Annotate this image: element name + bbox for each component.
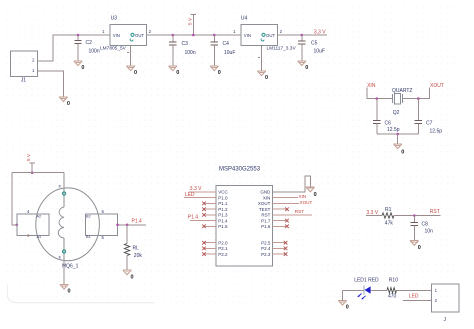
junction XIN-C6 [376, 97, 379, 100]
svg-text:5 V: 5 V [26, 153, 32, 161]
svg-text:470: 470 [388, 293, 397, 299]
resistor R10 [387, 278, 398, 300]
capacitor C2 [74, 35, 99, 61]
pin 2 of U3 [149, 29, 152, 34]
svg-text:XOUT: XOUT [430, 83, 444, 89]
no-connect P1.3 [202, 213, 216, 217]
svg-text:A2: A2 [37, 215, 42, 219]
pin 1 of U3 [102, 29, 105, 34]
svg-text:0: 0 [401, 150, 404, 156]
svg-text:A1: A1 [37, 235, 42, 239]
svg-text:LED: LED [409, 294, 419, 300]
resistor R1 [382, 207, 394, 227]
wire sensor output [118, 224, 147, 226]
svg-text:XOUT: XOUT [300, 200, 313, 205]
svg-text:0: 0 [314, 192, 317, 198]
svg-text:P2.2: P2.2 [218, 252, 228, 257]
net label XIN at quartz [367, 83, 376, 89]
MCU label MSP430G2553 [219, 167, 261, 173]
svg-text:0: 0 [131, 274, 134, 280]
wire RST [273, 214, 312, 216]
wire sensor heater bottom [58, 238, 66, 284]
no-connect P1.1 [202, 202, 216, 206]
svg-text:LED: LED [185, 192, 195, 198]
net label 3.3 V [314, 30, 326, 36]
sensor MQ6_1 body [36, 188, 100, 270]
wire U3 GND pin [127, 45, 131, 66]
svg-text:20k: 20k [134, 253, 143, 259]
wire to RL [126, 225, 128, 244]
no-connect P2.3 [273, 252, 288, 256]
no-connect P1.2 [202, 207, 216, 211]
ground for J1 [59, 97, 70, 107]
junction C2 tap [77, 34, 80, 37]
svg-text:VIN: VIN [113, 33, 120, 38]
net label 3.3 V at R1 [367, 210, 379, 216]
svg-text:MSP430G2553: MSP430G2553 [219, 167, 261, 173]
net label LED at J2 [409, 294, 419, 300]
ground for C3 [169, 66, 180, 76]
svg-text:0: 0 [67, 101, 70, 107]
wire ground to LED [343, 290, 365, 300]
ground for C4 [210, 66, 221, 76]
svg-text:100n: 100n [185, 50, 196, 56]
ground for LED [338, 300, 348, 310]
wire R1 to RST [394, 215, 440, 217]
no-connect P2.5 [273, 241, 288, 245]
wire crystal to XOUT [403, 88, 430, 99]
svg-text:P2.1: P2.1 [218, 246, 228, 251]
net label RST at MCU [295, 209, 305, 215]
svg-text:10n: 10n [425, 229, 434, 235]
svg-text:VIN: VIN [244, 33, 251, 38]
wire 5V rail U3 OUT to U4 VIN [146, 34, 241, 36]
no-connect P2.2 [202, 252, 216, 256]
wire LED to R10 [371, 289, 387, 291]
svg-text:H: H [58, 255, 62, 258]
svg-text:J1: J1 [21, 78, 27, 84]
svg-text:C8: C8 [422, 221, 429, 227]
svg-text:LED1 RED: LED1 RED [354, 278, 379, 284]
no-connect P2.4 [273, 247, 288, 251]
net label RST [430, 209, 440, 215]
junction at sensor pin A [15, 224, 18, 227]
svg-text:P2.3: P2.3 [261, 252, 271, 257]
svg-text:P1.5: P1.5 [218, 224, 228, 229]
wire R10 to J2 pin1 [397, 289, 432, 291]
wire XOUT [273, 202, 299, 204]
net label XOUT [430, 83, 444, 89]
svg-text:GND: GND [260, 190, 271, 195]
svg-text:C7: C7 [426, 121, 433, 127]
ground for sensor [60, 284, 71, 294]
wire GND to ground [273, 176, 311, 192]
svg-text:C2: C2 [86, 40, 93, 46]
power 5V symbol [188, 14, 197, 36]
wire LED net to J2 pin2 [403, 299, 431, 301]
MCU pin names right [258, 190, 271, 257]
svg-text:C5: C5 [311, 41, 318, 47]
net label P1.4 at sensor [132, 218, 143, 224]
MCU MSP430G2553 body [216, 185, 273, 266]
svg-text:0: 0 [81, 65, 84, 71]
svg-text:P2.0: P2.0 [218, 240, 228, 245]
svg-text:P1.0: P1.0 [218, 195, 228, 200]
svg-text:0: 0 [265, 75, 268, 81]
ground for U3 [126, 66, 137, 76]
net label XIN at MCU [299, 194, 307, 199]
capacitor C4 [211, 35, 236, 66]
junction C4 tap [213, 34, 216, 37]
no-connect P1.6 [273, 225, 289, 229]
wire C6 C7 common [377, 133, 419, 135]
LED LED1 RED [354, 278, 379, 300]
ground for C8 [410, 241, 421, 251]
no-connect P2.0 [202, 241, 216, 245]
no-connect P2.1 [202, 247, 216, 251]
ground for C5 [298, 61, 309, 71]
net label XOUT at MCU [300, 200, 313, 205]
svg-text:C4: C4 [223, 41, 230, 47]
svg-text:3.3 V: 3.3 V [314, 30, 326, 36]
svg-text:R10: R10 [389, 278, 398, 284]
svg-text:12.5p: 12.5p [387, 127, 400, 133]
regulator U3 LM7805_5V [100, 15, 146, 51]
net label P1.4 [188, 214, 199, 220]
svg-text:C3: C3 [182, 41, 189, 47]
connector J2 [431, 284, 459, 323]
svg-text:LM1117_3.3V: LM1117_3.3V [267, 45, 297, 51]
capacitor C8 [411, 216, 433, 241]
wire J1 pin2 to VIN rail [38, 35, 111, 61]
svg-text:P1.2: P1.2 [218, 207, 228, 212]
svg-text:0: 0 [346, 305, 349, 311]
junction RL tap [126, 224, 129, 227]
svg-text:0: 0 [134, 70, 137, 76]
power 5V symbol at sensor [26, 153, 35, 174]
svg-text:OUT: OUT [135, 33, 144, 38]
ground for U4 [257, 71, 268, 81]
svg-text:LM7805_5V: LM7805_5V [100, 45, 127, 51]
resistor RL [124, 244, 142, 260]
junction quartz ground [396, 133, 399, 136]
wire 3.3V to R1 [366, 215, 382, 217]
svg-text:P1.7: P1.7 [261, 218, 271, 223]
wire XIN to crystal [367, 88, 392, 99]
ground for MCU [306, 187, 317, 198]
svg-text:10uF: 10uF [224, 50, 235, 56]
junction XOUT-C7 [417, 97, 420, 100]
svg-text:P1.1: P1.1 [218, 201, 228, 206]
wire RL to ground [126, 256, 128, 271]
wire J1 pin1 to ground [38, 71, 64, 97]
wire U4 OUT 3.3V net [277, 34, 327, 36]
svg-text:0: 0 [418, 245, 421, 251]
no-connect P1.5 [202, 225, 216, 229]
capacitor C7 [415, 99, 443, 135]
wire sensor left leg [12, 173, 17, 225]
svg-text:0: 0 [218, 70, 221, 76]
svg-text:P1.4: P1.4 [218, 218, 228, 223]
ground for C2 [74, 61, 85, 71]
wire XIN [273, 197, 298, 199]
no-connect TEST [273, 207, 289, 211]
svg-text:0: 0 [176, 70, 179, 76]
junction C5 tap [301, 34, 304, 37]
svg-text:C6: C6 [385, 121, 392, 127]
ground for RL [123, 270, 134, 280]
svg-text:XIN: XIN [263, 195, 271, 200]
svg-text:P1.4: P1.4 [188, 214, 199, 220]
svg-text:0: 0 [68, 289, 71, 295]
svg-text:VCC: VCC [218, 190, 228, 195]
svg-text:P2.4: P2.4 [261, 246, 271, 251]
crystal Q2 QUARTZ [392, 88, 412, 116]
svg-text:H: H [58, 184, 62, 187]
junction at sensor pin B [116, 224, 119, 227]
svg-text:P1.6: P1.6 [261, 224, 271, 229]
svg-text:B2: B2 [86, 215, 91, 219]
svg-text:XOUT: XOUT [258, 201, 271, 206]
no-connect P1.7 [273, 219, 289, 223]
svg-text:0: 0 [305, 65, 308, 71]
wire P1.4 [190, 220, 216, 222]
svg-text:Q2: Q2 [393, 110, 400, 116]
svg-text:47k: 47k [385, 221, 394, 227]
svg-text:B1: B1 [86, 235, 91, 239]
wire VCC [188, 191, 216, 193]
net label 3.3 V at VCC [190, 186, 202, 192]
inductor heater coil [58, 207, 64, 238]
wire U4 GND pin [258, 45, 262, 71]
wire sensor heater top [58, 173, 66, 207]
sensor right terminal box [86, 209, 118, 240]
net label LED at P1.0 [185, 192, 195, 198]
svg-text:RST: RST [261, 213, 270, 218]
svg-text:100n: 100n [89, 49, 100, 55]
ground for quartz [394, 144, 405, 156]
svg-text:OUT: OUT [266, 33, 275, 38]
svg-text:QUARTZ: QUARTZ [392, 88, 412, 94]
svg-text:P2.5: P2.5 [261, 240, 271, 245]
pin 1 of U4 [233, 29, 236, 34]
svg-text:RL: RL [133, 246, 140, 252]
svg-text:RST: RST [430, 209, 440, 215]
sensor left terminal box [17, 209, 49, 239]
wire P1.0 LED [184, 197, 216, 199]
svg-text:U3: U3 [111, 15, 118, 21]
svg-text:P1.4: P1.4 [132, 218, 143, 224]
connector J1 [10, 51, 37, 84]
capacitor C6 [373, 99, 400, 134]
svg-text:TEST: TEST [259, 207, 271, 212]
pin 2 of U4 [280, 29, 283, 34]
svg-text:P1.3: P1.3 [218, 213, 228, 218]
svg-text:R1: R1 [385, 207, 392, 213]
regulator U4 LM1117_3.3V [241, 15, 297, 51]
svg-text:5 V: 5 V [188, 17, 194, 25]
svg-text:RST: RST [295, 209, 305, 215]
svg-text:10uF: 10uF [314, 49, 325, 55]
sheet border bottom-left [8, 285, 156, 303]
svg-text:U4: U4 [241, 15, 248, 21]
svg-text:12.5p: 12.5p [430, 129, 443, 135]
MCU pin names left [218, 190, 228, 257]
capacitor C5 [298, 35, 325, 61]
capacitor C3 [169, 35, 196, 66]
svg-text:XIN: XIN [367, 83, 376, 89]
svg-text:XIN: XIN [299, 194, 307, 199]
wire sensor top rail [12, 172, 64, 174]
junction RST-C8 [413, 214, 416, 217]
junction C3 tap [172, 34, 175, 37]
wire to quartz ground [397, 134, 399, 144]
